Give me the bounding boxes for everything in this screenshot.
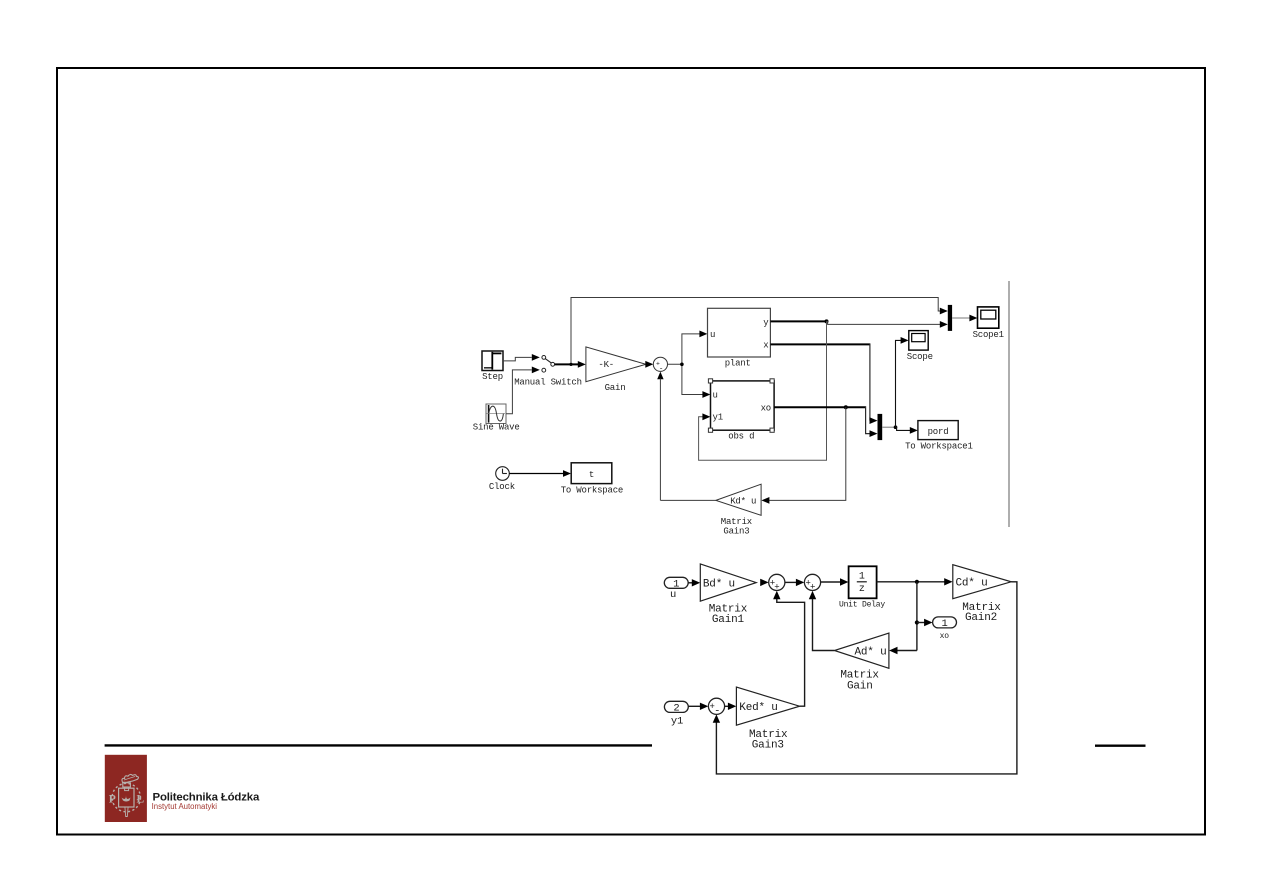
source block Sine Wave (486, 404, 506, 424)
scope block Scope (909, 331, 928, 351)
label Matrix Gain3 (top) (721, 517, 752, 536)
svg-text:Cd* u: Cd* u (956, 578, 988, 590)
junction dot state x (915, 580, 919, 584)
svg-text:1: 1 (859, 572, 865, 583)
svg-text:u: u (710, 330, 715, 340)
outport 1 xo (933, 617, 957, 630)
footer rule left (105, 744, 652, 746)
svg-text:Bd* u: Bd* u (703, 579, 735, 591)
label To Workspace1 (905, 441, 973, 451)
svg-text:Gain1: Gain1 (712, 614, 745, 626)
svg-text:Gain3: Gain3 (752, 740, 784, 752)
sum junction S1 ++ (769, 574, 785, 592)
svg-text:Ked* u: Ked* u (739, 702, 777, 714)
svg-text:Gain: Gain (605, 383, 626, 393)
gain block Bd Matrix Gain1 (700, 564, 756, 601)
sum junction S3 +- (708, 698, 724, 717)
wire junction to Mux1 in2 (827, 321, 948, 328)
sum junction S0 +/- (653, 357, 667, 373)
svg-text:Unit Delay: Unit Delay (839, 601, 885, 610)
label Step (482, 372, 503, 382)
label Matrix Gain (840, 669, 879, 692)
svg-text:Gain3: Gain3 (723, 526, 749, 536)
logo text Instytut Automatyki (152, 802, 218, 811)
junction dot xo (844, 405, 848, 409)
footer rule right (1095, 745, 1146, 747)
gain block Ad Matrix Gain (834, 633, 889, 668)
wire inport1 to Bd (688, 579, 700, 586)
junction dot xo out (915, 620, 919, 624)
svg-text:Ad* u: Ad* u (855, 646, 887, 658)
junction dot sum output (680, 363, 684, 367)
svg-text:Scope: Scope (907, 352, 933, 362)
wire plant x to Mux2 in1 (770, 343, 877, 424)
wire Mux1 to Scope1 (952, 315, 977, 322)
svg-text:xo: xo (940, 632, 950, 641)
label Unit Delay (839, 601, 885, 610)
block Manual Switch (542, 356, 555, 373)
gain block Kd Matrix Gain3 (716, 484, 761, 515)
gain block Ked Matrix Gain3 (736, 687, 799, 725)
svg-text:Clock: Clock (489, 482, 515, 492)
svg-text:Kd* u: Kd* u (730, 496, 756, 506)
wire switch output to Mux1 in1 (571, 298, 948, 365)
svg-text:x: x (763, 341, 768, 351)
svg-text:Sine Wave: Sine Wave (473, 423, 520, 433)
wire to Ad input (889, 647, 917, 654)
block To Workspace1 pord (918, 421, 958, 440)
wire to pord (896, 427, 918, 434)
wire Unit Delay to Cd (877, 578, 953, 585)
svg-text:obs d: obs d (728, 432, 754, 442)
label plant (725, 359, 751, 369)
selection handles obs d (708, 379, 774, 433)
block Unit Delay 1/z (849, 566, 877, 598)
wire sum1 to sum2 (785, 579, 804, 586)
wire Bd to sum1 (760, 579, 768, 586)
wire sum3 to Ked (725, 703, 737, 710)
svg-text:Gain: Gain (847, 680, 873, 692)
wire Ked to sum1 (773, 591, 805, 706)
label u (670, 589, 676, 601)
svg-text:pord: pord (928, 427, 949, 437)
label obs d (728, 432, 754, 442)
wire obs d xo (774, 406, 866, 408)
wire Sine Wave to Manual Switch in2 (506, 367, 540, 414)
svg-text:xo: xo (761, 403, 771, 413)
label Manual Switch (514, 378, 582, 388)
sum junction S2 ++ (804, 574, 820, 592)
wire Ad output to sum2 (809, 591, 835, 651)
svg-text:u: u (713, 390, 718, 400)
gray separator line (1008, 281, 1010, 527)
svg-text:y: y (763, 318, 769, 328)
wire Clock to To Workspace (509, 470, 571, 477)
wire to Scope (896, 337, 909, 427)
wire Sum to plant u (668, 331, 708, 365)
label Scope1 (973, 330, 1004, 340)
label Matrix Gain2 (962, 602, 1001, 624)
svg-text:Ł: Ł (136, 794, 144, 806)
logo text Politechnika Lodzka (153, 792, 260, 804)
label Matrix Gain3 (bottom) (749, 729, 788, 752)
label Clock (489, 482, 515, 492)
wire to outport xo (917, 619, 933, 626)
label y1 (671, 716, 683, 728)
svg-text:u: u (670, 589, 676, 601)
svg-text:-K-: -K- (598, 360, 614, 370)
junction dot switch output (569, 363, 572, 366)
label Matrix Gain1 (709, 603, 748, 626)
subsystem block plant (708, 308, 771, 357)
label xo (940, 632, 950, 641)
svg-text:1: 1 (941, 618, 947, 630)
inport 1 u (664, 577, 688, 590)
svg-text:Step: Step (482, 372, 503, 382)
source block Clock (496, 467, 510, 481)
wire Step to Manual Switch in1 (503, 354, 540, 361)
wire Manual Switch to Gain (555, 361, 586, 368)
svg-text:y1: y1 (713, 413, 723, 423)
wire Kd feedback into Sum bottom (657, 372, 663, 501)
wire xo junction to Kd input (761, 407, 845, 504)
wire sum2 to Unit Delay (821, 578, 849, 585)
label Sine Wave (473, 423, 520, 433)
slide border frame (57, 68, 1205, 835)
svg-text:Instytut Automatyki: Instytut Automatyki (152, 802, 218, 811)
label Scope (907, 352, 933, 362)
subsystem block obs d (711, 381, 775, 430)
label Gain (605, 383, 626, 393)
svg-text:-: - (659, 365, 663, 373)
svg-text:t: t (589, 470, 594, 480)
source block Step (482, 351, 503, 371)
svg-text:Manual Switch: Manual Switch (514, 378, 582, 388)
scope block Scope1 (978, 307, 999, 328)
inport 2 y1 (664, 701, 688, 714)
wire Cd output feedback loop (713, 582, 1017, 774)
wire Gain to Sum (645, 361, 653, 368)
wire Kd output to Sum (660, 499, 715, 501)
logo Politechnika Lodzka emblem (105, 755, 147, 822)
wire y feedback to obs d y1 (699, 321, 827, 460)
label To Workspace (561, 486, 623, 496)
mux Mux1 (948, 305, 952, 331)
svg-text:plant: plant (725, 359, 751, 369)
svg-text:2: 2 (673, 703, 679, 715)
wire plant y to junction (770, 320, 826, 322)
block To Workspace t (571, 463, 612, 484)
svg-text:P: P (109, 794, 116, 806)
svg-text:Scope1: Scope1 (973, 330, 1004, 340)
junction dot plant y (825, 319, 829, 323)
wire state branch down (916, 582, 918, 651)
svg-text:To Workspace: To Workspace (561, 486, 623, 496)
gain block Cd Matrix Gain2 (953, 565, 1011, 599)
svg-text:Gain2: Gain2 (965, 612, 997, 624)
svg-text:To Workspace1: To Workspace1 (905, 441, 973, 451)
svg-text:y1: y1 (671, 716, 683, 728)
mux Mux2 (878, 414, 883, 440)
wire xo to Mux2 in2 (866, 406, 878, 437)
svg-text:z: z (859, 584, 865, 595)
wire Mux2 output junction (882, 425, 897, 429)
gain block Gain -K- (586, 347, 646, 382)
svg-text:-: - (714, 705, 720, 717)
wire Sum to obs d u (682, 364, 711, 398)
wire inport2 to sum3 (688, 703, 708, 710)
